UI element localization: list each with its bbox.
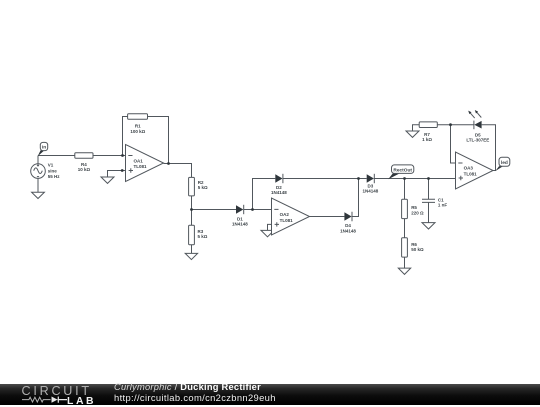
svg-text:1 kΩ: 1 kΩ — [422, 137, 432, 142]
svg-text:220 Ω: 220 Ω — [411, 210, 424, 215]
svg-text:1 nF: 1 nF — [438, 202, 448, 207]
svg-text:TL081: TL081 — [134, 164, 148, 169]
svg-text:55 Hz: 55 Hz — [48, 174, 61, 179]
svg-text:50 kΩ: 50 kΩ — [411, 247, 424, 252]
svg-text:led: led — [501, 160, 508, 166]
svg-text:TL081: TL081 — [464, 171, 478, 176]
svg-text:5 kΩ: 5 kΩ — [198, 185, 208, 190]
svg-text:in: in — [42, 145, 46, 151]
svg-text:OA2: OA2 — [280, 212, 290, 217]
svg-text:LTL-307EE: LTL-307EE — [466, 138, 489, 143]
svg-text:10 kΩ: 10 kΩ — [78, 167, 91, 172]
svg-text:5 kΩ: 5 kΩ — [198, 234, 208, 239]
svg-text:OA3: OA3 — [464, 166, 474, 171]
svg-text:OA1: OA1 — [134, 158, 144, 163]
svg-text:TL081: TL081 — [280, 218, 294, 223]
svg-text:1N4148: 1N4148 — [232, 222, 248, 227]
svg-text:1N4148: 1N4148 — [271, 190, 287, 195]
svg-text:V1: V1 — [48, 163, 54, 168]
svg-text:RectOut: RectOut — [393, 168, 412, 174]
svg-text:1N4148: 1N4148 — [363, 189, 379, 194]
svg-text:sine: sine — [48, 168, 58, 173]
svg-text:100 kΩ: 100 kΩ — [130, 129, 145, 134]
svg-text:1N4148: 1N4148 — [340, 228, 356, 233]
